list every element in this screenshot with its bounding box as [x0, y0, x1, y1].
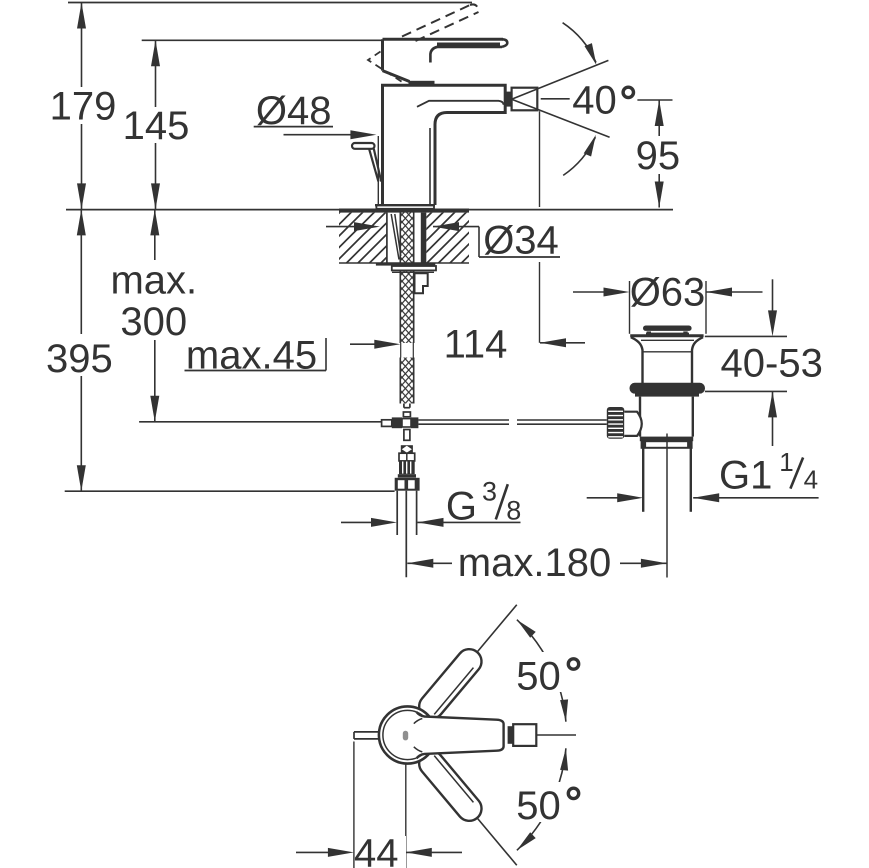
svg-text:max.: max. [110, 259, 197, 303]
svg-text:50: 50 [516, 784, 561, 828]
svg-text:40: 40 [572, 79, 617, 123]
svg-text:Ø48: Ø48 [256, 89, 332, 133]
svg-text:114: 114 [444, 323, 508, 367]
svg-text:145: 145 [123, 104, 190, 148]
svg-text:max.180: max.180 [458, 541, 611, 585]
svg-text:40-53: 40-53 [721, 342, 823, 386]
svg-text:1: 1 [779, 447, 793, 477]
svg-text:G1: G1 [719, 454, 772, 498]
svg-text:95: 95 [636, 134, 681, 178]
svg-text:Ø63: Ø63 [630, 271, 706, 315]
svg-text:G: G [446, 484, 477, 528]
svg-text:max.45: max.45 [186, 334, 317, 378]
svg-text:4: 4 [804, 465, 818, 495]
svg-text:179: 179 [50, 85, 117, 129]
svg-text:3: 3 [482, 477, 497, 507]
svg-text:50: 50 [516, 654, 561, 698]
svg-text:44: 44 [354, 832, 399, 868]
svg-text:300: 300 [120, 300, 187, 344]
svg-text:395: 395 [46, 337, 113, 381]
svg-text:8: 8 [506, 495, 521, 525]
svg-text:Ø34: Ø34 [483, 219, 559, 263]
